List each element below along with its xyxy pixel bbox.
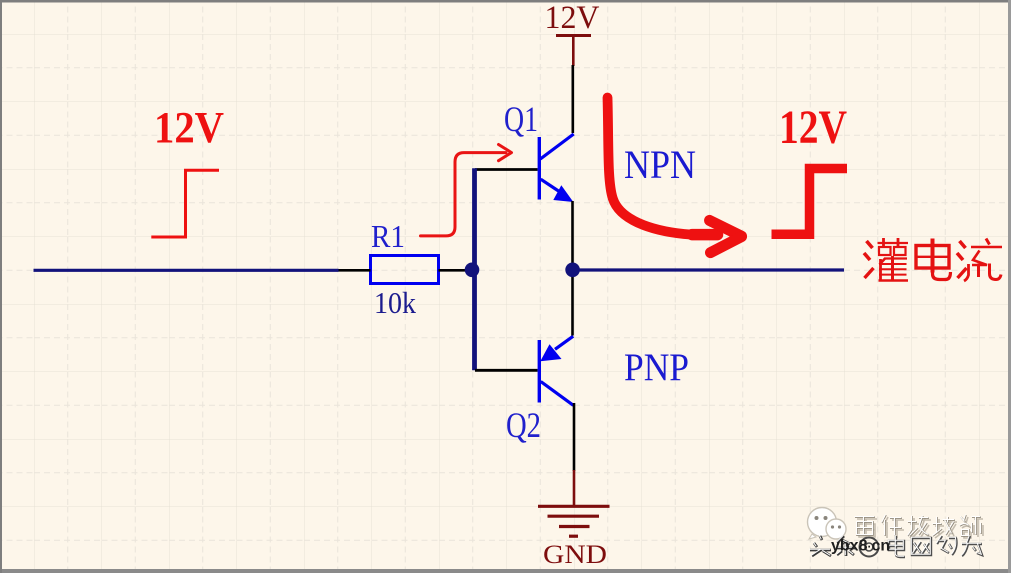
wire: R1 left pin [339,269,371,272]
svg-text:ybx8·cn: ybx8·cn [831,538,890,555]
transistor Q1 (NPN) [539,134,573,202]
wire: output (right, navy) [573,268,845,271]
wire: Q2 collector down [573,403,576,471]
gnd stem [573,470,576,506]
svg-text:GND: GND [543,540,607,569]
Q2 collector diagonal [541,382,574,406]
power portal stem [572,36,575,67]
node: base junction [465,263,480,278]
svg-text:Q2: Q2 [506,405,541,445]
annotation: left input step waveform [151,170,219,237]
Q1 emitter diagonal with arrow [541,179,560,192]
watermark: wechat icon [808,508,847,540]
wire: 12V rail to Q1 collector [571,65,574,133]
流 [957,239,1002,282]
@ circle [860,538,879,557]
power portal 12V bar [556,34,591,37]
wire: base pin Q1 [475,168,538,171]
svg-text:10k: 10k [374,285,416,320]
annotation: big red curved arrow [608,98,715,235]
svg-text:NPN: NPN [624,142,696,187]
wire: input (left, navy) [34,269,339,272]
Q1 collector diagonal [540,134,573,159]
node: output junction [565,263,580,278]
svg-text:12V: 12V [154,103,224,152]
灌 [864,238,908,281]
watermark: line1 white chars with gray outline (硬件攻城狮 approx) [855,515,984,539]
电 [916,239,951,280]
ground [538,506,610,536]
wire: base pin Q2 [475,369,538,372]
annotation: 灌电流 (sink current, drawn glyphs) [864,238,1002,281]
Q2 emitter diagonal with arrow (pointing into base) [555,336,573,349]
transistor Q2 (PNP) [539,336,573,405]
Q2 base bar [538,340,541,403]
wire: output node down to Q2 emitter [571,274,574,336]
watermark: line2 头条@电图约丸 (approx) [809,535,982,557]
resistor R1 [371,256,439,284]
wire: Q1 emitter down to output node [571,201,574,265]
svg-text:R1: R1 [371,218,405,254]
annotation: right output step waveform (thick) [772,169,848,235]
svg-text:12V: 12V [779,101,847,154]
wire: R1 right pin [439,269,467,272]
svg-text:PNP: PNP [624,346,689,389]
svg-text:Q1: Q1 [504,99,538,139]
wire: vertical base bus [472,168,477,370]
Q1 base bar [538,137,541,200]
svg-text:12V: 12V [545,0,600,36]
annotation: small red arrow to Q1 base [421,153,507,236]
